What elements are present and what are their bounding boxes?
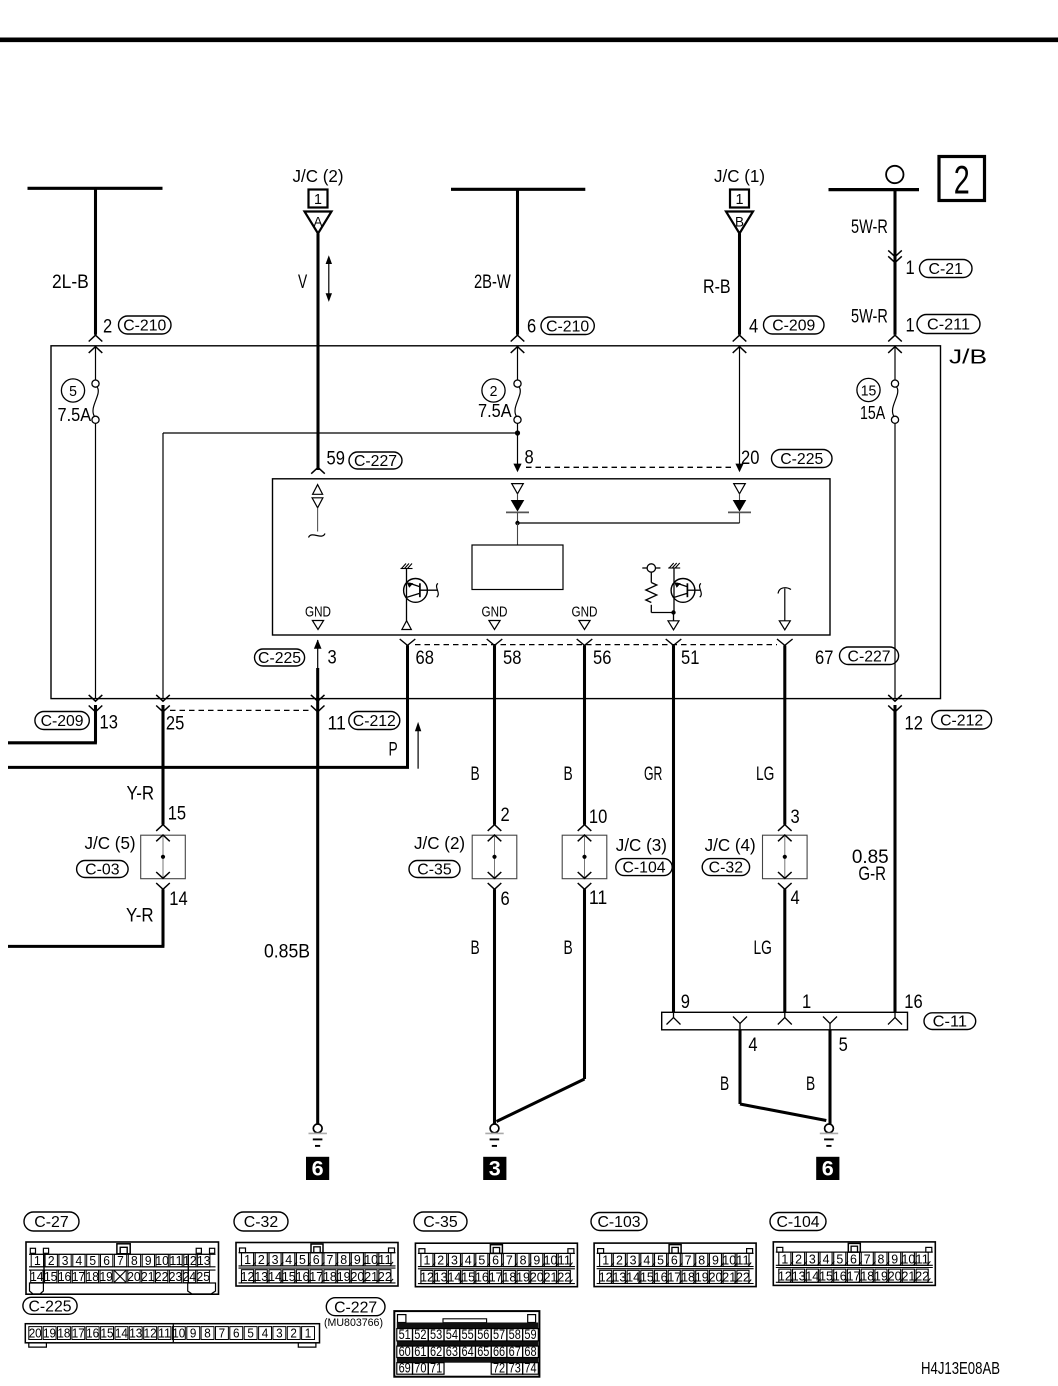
wire fuse2 to junction	[517, 423, 519, 433]
svg-text:5: 5	[89, 1253, 96, 1268]
svg-text:2: 2	[501, 805, 510, 826]
svg-text:C-227: C-227	[848, 648, 891, 665]
svg-text:22: 22	[557, 1270, 571, 1285]
svg-text:25: 25	[197, 1269, 210, 1284]
svg-text:11: 11	[589, 888, 607, 909]
svg-text:15: 15	[282, 1269, 296, 1284]
svg-text:LG: LG	[756, 764, 774, 785]
svg-text:56: 56	[593, 648, 611, 669]
svg-text:12: 12	[599, 1270, 613, 1285]
svg-text:3: 3	[451, 1253, 458, 1268]
svg-text:19: 19	[337, 1269, 351, 1284]
branch wire to pin 25	[163, 432, 518, 434]
svg-text:21: 21	[722, 1270, 736, 1285]
svg-text:68: 68	[416, 648, 434, 669]
fuse 5 (7.5A)	[95, 347, 97, 380]
junction block J/B outline	[51, 346, 941, 699]
ground 6 (left)	[313, 1124, 322, 1133]
svg-text:11: 11	[915, 1251, 929, 1266]
svg-text:8: 8	[698, 1253, 705, 1268]
svg-text:16: 16	[475, 1270, 489, 1285]
svg-text:1: 1	[305, 1327, 312, 1341]
svg-text:21: 21	[364, 1269, 378, 1284]
svg-text:G-R: G-R	[858, 864, 886, 885]
connector table C-32	[234, 1212, 288, 1231]
svg-text:1: 1	[906, 316, 915, 337]
svg-text:15A: 15A	[860, 403, 885, 423]
svg-text:12: 12	[241, 1269, 255, 1284]
svg-text:14: 14	[169, 889, 188, 910]
svg-text:9: 9	[712, 1253, 719, 1268]
fuse 2 (7.5A)	[517, 347, 519, 380]
svg-text:15: 15	[168, 804, 186, 825]
connector table C-27	[24, 1212, 219, 1294]
connector crossing into J/B (R-B)	[733, 335, 747, 341]
svg-text:C-225: C-225	[780, 451, 823, 468]
svg-text:16: 16	[654, 1270, 668, 1285]
svg-text:17: 17	[847, 1268, 861, 1283]
svg-text:13: 13	[129, 1327, 142, 1341]
svg-text:C-104: C-104	[623, 860, 666, 877]
pin 67 fork	[777, 639, 793, 645]
svg-text:67: 67	[815, 648, 833, 669]
svg-text:17: 17	[489, 1270, 503, 1285]
svg-text:Y-R: Y-R	[127, 784, 155, 805]
wire pin25 exit	[156, 695, 170, 701]
svg-text:6: 6	[850, 1251, 857, 1266]
svg-text:21: 21	[141, 1269, 154, 1284]
svg-text:17: 17	[309, 1269, 323, 1284]
diode junction node and bus	[518, 522, 740, 524]
svg-text:18: 18	[86, 1269, 99, 1284]
svg-text:4: 4	[76, 1253, 83, 1268]
svg-text:20: 20	[350, 1269, 364, 1284]
ignition bus bar (middle)	[451, 188, 585, 191]
svg-text:17: 17	[72, 1269, 85, 1284]
svg-text:10: 10	[902, 1251, 916, 1266]
svg-text:25: 25	[166, 714, 184, 735]
svg-text:69: 69	[399, 1361, 411, 1376]
double arrow direction mark	[326, 255, 332, 302]
svg-text:5W-R: 5W-R	[851, 307, 888, 328]
svg-text:C-210: C-210	[123, 318, 166, 335]
svg-text:16: 16	[58, 1269, 71, 1284]
svg-text:J/C (1): J/C (1)	[714, 166, 765, 186]
svg-text:18: 18	[502, 1270, 516, 1285]
wire LG (pin 67)	[783, 645, 786, 824]
svg-text:20: 20	[709, 1270, 723, 1285]
svg-text:5: 5	[247, 1327, 254, 1341]
pin 59 internal: triangle pair and coil tail	[309, 485, 326, 538]
svg-text:C-32: C-32	[709, 860, 743, 877]
svg-text:3: 3	[276, 1327, 283, 1341]
svg-text:51: 51	[681, 648, 699, 669]
svg-text:3: 3	[630, 1253, 637, 1268]
svg-text:11: 11	[169, 1253, 182, 1268]
svg-text:12: 12	[778, 1268, 792, 1283]
svg-text:18: 18	[860, 1268, 874, 1283]
svg-text:16: 16	[833, 1268, 847, 1283]
svg-text:C-209: C-209	[772, 318, 815, 335]
svg-text:8: 8	[525, 448, 534, 469]
svg-text:20: 20	[29, 1327, 42, 1341]
svg-text:14: 14	[115, 1327, 128, 1341]
svg-text:GND: GND	[572, 604, 598, 621]
C-11 pin 5 terminal	[823, 1017, 837, 1024]
pin 56 fork	[577, 639, 593, 645]
svg-text:B: B	[735, 215, 744, 230]
svg-text:J/C (4): J/C (4)	[705, 835, 756, 855]
svg-text:19: 19	[99, 1269, 112, 1284]
svg-text:P: P	[389, 740, 398, 761]
svg-text:J/B: J/B	[949, 347, 987, 369]
fuse 15 (15A)	[894, 347, 896, 380]
svg-text:22: 22	[378, 1269, 392, 1284]
svg-text:C-227: C-227	[334, 1299, 377, 1316]
svg-text:7: 7	[685, 1253, 692, 1268]
svg-text:13: 13	[612, 1270, 626, 1285]
svg-text:3: 3	[489, 1158, 501, 1181]
svg-text:2: 2	[616, 1253, 623, 1268]
svg-text:14: 14	[268, 1269, 282, 1284]
svg-text:9: 9	[354, 1252, 361, 1267]
svg-text:18: 18	[323, 1269, 337, 1284]
svg-text:6: 6	[671, 1253, 678, 1268]
svg-text:GND: GND	[482, 604, 508, 621]
svg-text:18: 18	[681, 1270, 695, 1285]
svg-text:C-225: C-225	[29, 1298, 72, 1315]
svg-text:7: 7	[326, 1252, 333, 1267]
svg-text:B: B	[564, 764, 573, 785]
C-11 pin 16 terminal	[888, 1018, 902, 1025]
connector crossing into J/B (2L-B)	[89, 335, 103, 341]
connector C-11 box	[662, 1012, 908, 1030]
svg-text:11: 11	[557, 1253, 571, 1268]
svg-text:11: 11	[378, 1252, 392, 1267]
svg-text:B: B	[720, 1074, 729, 1095]
svg-text:C-209: C-209	[41, 713, 84, 730]
svg-text:3: 3	[328, 648, 337, 669]
C-11 pin 9 terminal	[667, 1018, 681, 1025]
svg-text:6: 6	[822, 1158, 834, 1181]
svg-text:5: 5	[839, 1035, 848, 1056]
svg-text:9: 9	[145, 1253, 152, 1268]
C-227 dashed boundary under unit	[415, 644, 777, 646]
svg-text:6: 6	[501, 889, 510, 910]
svg-text:21: 21	[544, 1270, 558, 1285]
svg-text:8: 8	[204, 1327, 211, 1341]
connector crossing into J/B (2B-W)	[511, 335, 525, 341]
svg-text:2: 2	[48, 1253, 55, 1268]
svg-text:12: 12	[144, 1327, 157, 1341]
wire to unit pin 8 with male arrow	[517, 433, 519, 466]
svg-text:9: 9	[190, 1327, 197, 1341]
junction node under Q2	[671, 610, 675, 614]
svg-text:3: 3	[791, 807, 800, 828]
svg-text:7: 7	[506, 1253, 513, 1268]
svg-text:21: 21	[902, 1268, 916, 1283]
svg-text:55: 55	[461, 1327, 473, 1342]
svg-text:B: B	[806, 1074, 815, 1095]
svg-text:7: 7	[864, 1251, 871, 1266]
svg-text:4: 4	[643, 1253, 650, 1268]
bus bar (right)	[829, 188, 920, 191]
connector crossing into J/B (5W-R)	[888, 335, 902, 341]
svg-text:C-35: C-35	[417, 862, 451, 879]
svg-text:1: 1	[602, 1253, 609, 1268]
svg-text:14: 14	[805, 1268, 819, 1283]
svg-text:C-32: C-32	[244, 1214, 278, 1231]
wire R-B inside J/B to unit pin 20 with male arrow	[739, 347, 741, 466]
svg-text:14: 14	[448, 1270, 462, 1285]
svg-text:1: 1	[244, 1252, 251, 1267]
svg-text:GND: GND	[305, 604, 331, 621]
svg-text:10: 10	[722, 1253, 736, 1268]
svg-text:12: 12	[183, 1253, 196, 1268]
svg-text:53: 53	[430, 1327, 442, 1342]
svg-text:13: 13	[254, 1269, 268, 1284]
svg-text:13: 13	[792, 1268, 806, 1283]
svg-text:4: 4	[749, 317, 759, 338]
svg-text:10: 10	[544, 1253, 558, 1268]
svg-text:19: 19	[695, 1270, 709, 1285]
svg-text:63: 63	[446, 1344, 458, 1359]
svg-text:B: B	[471, 764, 480, 785]
C-11 pin 4 terminal	[733, 1017, 747, 1024]
svg-text:2: 2	[258, 1252, 265, 1267]
svg-text:7.5A: 7.5A	[58, 405, 92, 425]
svg-text:9: 9	[891, 1251, 898, 1266]
svg-text:74: 74	[524, 1361, 537, 1376]
svg-text:6: 6	[527, 317, 536, 338]
svg-text:8: 8	[520, 1253, 527, 1268]
ground 3 (center)	[490, 1124, 499, 1133]
transistor Q1	[401, 564, 439, 630]
pin 51 fork	[666, 639, 682, 645]
svg-text:4: 4	[748, 1035, 758, 1056]
svg-text:56: 56	[477, 1327, 489, 1342]
C-11 pin 1 terminal	[778, 1018, 792, 1025]
internal logic block rectangle	[472, 545, 563, 590]
svg-text:1: 1	[802, 992, 811, 1013]
svg-text:1: 1	[736, 192, 744, 208]
svg-text:67: 67	[509, 1344, 521, 1359]
diagonal join to ground 3	[497, 1079, 585, 1122]
svg-text:5: 5	[299, 1252, 306, 1267]
wire pin11 / 0.85B	[311, 695, 325, 701]
svg-text:11: 11	[158, 1327, 171, 1341]
svg-text:3: 3	[272, 1252, 279, 1267]
svg-text:54: 54	[446, 1327, 459, 1342]
svg-text:14: 14	[626, 1270, 640, 1285]
svg-text:72: 72	[493, 1361, 505, 1376]
svg-text:1: 1	[314, 192, 322, 208]
svg-text:60: 60	[399, 1344, 411, 1359]
svg-text:J/C (3): J/C (3)	[616, 835, 667, 855]
svg-text:5W-R: 5W-R	[851, 217, 888, 238]
wire 12 / 0.85 G-R	[888, 695, 902, 701]
wire Y-R lower	[161, 889, 164, 946]
svg-text:7.5A: 7.5A	[478, 401, 512, 421]
pin 68 fork	[400, 639, 416, 645]
svg-text:15: 15	[461, 1270, 475, 1285]
svg-text:20: 20	[888, 1268, 902, 1283]
svg-text:15: 15	[101, 1327, 114, 1341]
svg-text:61: 61	[414, 1344, 426, 1359]
svg-text:V: V	[298, 272, 307, 293]
svg-text:10: 10	[364, 1252, 378, 1267]
svg-text:J/C (2): J/C (2)	[293, 166, 344, 186]
svg-text:15: 15	[640, 1270, 654, 1285]
svg-text:2: 2	[795, 1251, 802, 1266]
connector table C-35	[414, 1212, 467, 1231]
svg-text:22: 22	[155, 1269, 168, 1284]
svg-text:12: 12	[420, 1270, 434, 1285]
svg-text:14: 14	[30, 1269, 43, 1284]
pin 67 internal switch line	[778, 588, 791, 630]
svg-text:11: 11	[736, 1253, 750, 1268]
wire 2L-B vertical	[94, 188, 97, 334]
svg-text:19: 19	[874, 1268, 888, 1283]
svg-text:5: 5	[478, 1253, 485, 1268]
svg-text:62: 62	[430, 1344, 442, 1359]
svg-text:C-03: C-03	[85, 862, 119, 879]
sensor terminal circle + resistor R1	[642, 564, 673, 613]
harness continuation chevrons C-21	[888, 250, 902, 256]
svg-text:65: 65	[477, 1344, 489, 1359]
svg-text:C-225: C-225	[258, 650, 301, 667]
svg-text:15: 15	[819, 1268, 833, 1283]
svg-text:4: 4	[285, 1252, 292, 1267]
ETACS unit box outline	[273, 479, 831, 635]
svg-text:2: 2	[103, 317, 112, 338]
svg-text:18: 18	[57, 1327, 70, 1341]
svg-text:8: 8	[131, 1253, 138, 1268]
svg-text:1: 1	[781, 1251, 788, 1266]
connector C-225 dashed boundary 8-20	[526, 466, 734, 468]
svg-text:11: 11	[328, 714, 346, 735]
svg-text:52: 52	[414, 1327, 426, 1342]
svg-text:8: 8	[878, 1251, 885, 1266]
svg-text:15: 15	[861, 382, 877, 399]
pin 58 fork	[487, 639, 503, 645]
svg-text:2: 2	[490, 383, 498, 400]
svg-text:1: 1	[906, 258, 915, 279]
svg-text:6: 6	[312, 1158, 324, 1181]
fusible link circle terminal	[886, 166, 903, 183]
svg-text:0.85B: 0.85B	[264, 942, 310, 963]
svg-text:B: B	[471, 938, 480, 959]
svg-text:64: 64	[461, 1344, 474, 1359]
svg-text:71: 71	[430, 1361, 442, 1376]
svg-text:C-21: C-21	[929, 261, 963, 278]
svg-text:C-27: C-27	[34, 1214, 68, 1231]
transistor Q2	[668, 563, 701, 613]
wire from fuse 15 down to pin 12	[894, 423, 896, 698]
svg-text:16: 16	[904, 992, 922, 1013]
svg-text:2: 2	[954, 159, 970, 203]
svg-text:B: B	[564, 938, 573, 959]
wire from fuse 5 down to pin 13	[95, 423, 97, 698]
svg-text:16: 16	[86, 1327, 99, 1341]
svg-text:10: 10	[155, 1253, 168, 1268]
P continuation arrow	[389, 722, 422, 769]
wire V vertical	[316, 234, 319, 471]
svg-text:J/C (2): J/C (2)	[414, 833, 465, 853]
svg-text:10: 10	[172, 1327, 185, 1341]
wire 2B-W vertical	[516, 189, 519, 334]
svg-text:3: 3	[62, 1253, 69, 1268]
wire 68 thick exit	[406, 645, 409, 767]
svg-text:19: 19	[516, 1270, 530, 1285]
page number box 2	[939, 157, 985, 203]
battery feed bus bar (left)	[28, 187, 163, 190]
svg-text:4: 4	[823, 1251, 830, 1266]
wire Y-R upper	[161, 705, 164, 825]
ground 6 (right)	[825, 1124, 834, 1133]
pin 51 output triangle	[668, 621, 679, 630]
svg-text:58: 58	[509, 1327, 521, 1342]
svg-text:6: 6	[233, 1327, 240, 1341]
svg-text:17: 17	[72, 1327, 85, 1341]
svg-text:6: 6	[492, 1253, 499, 1268]
svg-text:24: 24	[183, 1269, 196, 1284]
svg-text:59: 59	[327, 449, 345, 470]
svg-text:2: 2	[290, 1327, 297, 1341]
svg-text:51: 51	[399, 1327, 411, 1342]
svg-text:23: 23	[169, 1269, 182, 1284]
connector table C-227	[324, 1298, 539, 1377]
svg-text:58: 58	[503, 648, 521, 669]
svg-text:C-35: C-35	[423, 1214, 457, 1231]
svg-text:15: 15	[44, 1269, 57, 1284]
svg-text:7: 7	[117, 1253, 124, 1268]
svg-text:A: A	[314, 215, 323, 230]
svg-text:C-210: C-210	[546, 318, 589, 335]
svg-text:20: 20	[530, 1270, 544, 1285]
svg-text:4: 4	[262, 1327, 269, 1341]
svg-text:C-212: C-212	[353, 713, 396, 730]
pin 3 arrow (C-225)	[317, 640, 319, 668]
svg-text:C-104: C-104	[777, 1214, 820, 1231]
diode D2 (pin 20)	[728, 484, 751, 523]
svg-text:6: 6	[313, 1252, 320, 1267]
diode D1 (pin 8)	[506, 484, 529, 523]
svg-text:4: 4	[465, 1253, 472, 1268]
junction node	[515, 430, 520, 435]
svg-text:C-11: C-11	[933, 1014, 967, 1031]
svg-text:8: 8	[340, 1252, 347, 1267]
svg-text:17: 17	[667, 1270, 681, 1285]
svg-text:(MU803766): (MU803766)	[324, 1317, 383, 1329]
svg-text:4: 4	[791, 888, 801, 909]
svg-text:R-B: R-B	[703, 277, 731, 298]
wire B (pin 56)	[583, 645, 586, 824]
svg-text:12: 12	[905, 714, 923, 735]
svg-text:13: 13	[434, 1270, 448, 1285]
svg-text:68: 68	[524, 1344, 536, 1359]
svg-text:C-211: C-211	[927, 317, 970, 334]
wire R-B vertical	[738, 234, 741, 335]
svg-text:13: 13	[197, 1253, 210, 1268]
svg-text:H4J13E08AB: H4J13E08AB	[921, 1358, 1000, 1378]
svg-text:5: 5	[657, 1253, 664, 1268]
svg-text:J/C (5): J/C (5)	[85, 833, 136, 853]
top rule bar	[0, 37, 1058, 42]
svg-text:59: 59	[524, 1327, 536, 1342]
svg-text:66: 66	[493, 1344, 505, 1359]
svg-text:10: 10	[589, 807, 607, 828]
